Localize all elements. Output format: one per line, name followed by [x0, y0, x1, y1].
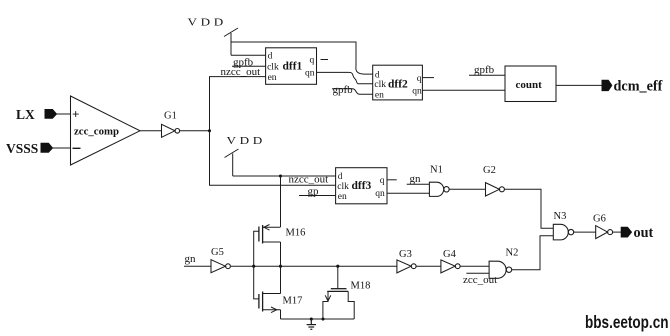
- svg-text:clk: clk: [267, 62, 279, 72]
- nand N2: [489, 248, 518, 279]
- power VDD (top): [188, 16, 239, 55]
- wire VDD branch to dff2 d: [356, 67, 373, 75]
- svg-text:en: en: [268, 73, 277, 83]
- svg-text:M16: M16: [286, 228, 306, 239]
- svg-text:+: +: [72, 106, 79, 121]
- svg-text:LX: LX: [16, 107, 35, 122]
- svg-text:VDD: VDD: [188, 16, 227, 28]
- flip-flop dff2: [373, 65, 423, 100]
- ground: [307, 319, 316, 329]
- svg-text:G1: G1: [164, 111, 177, 122]
- wire G5 to G3 (main rail): [231, 265, 397, 267]
- svg-text:M17: M17: [283, 296, 303, 307]
- wire dff2 q stub: [422, 77, 434, 79]
- nand N1: [429, 165, 449, 197]
- node junction ground: [310, 317, 313, 320]
- svg-text:q: q: [380, 176, 385, 186]
- wire count to dcm_eff: [556, 84, 602, 86]
- svg-text:d: d: [338, 172, 343, 182]
- power VDD (middle): [225, 134, 266, 176]
- node out output tag: [621, 227, 631, 237]
- wire G6 to out tag: [613, 231, 622, 233]
- node LX input tag: [45, 110, 57, 119]
- inverter G1: [162, 111, 180, 138]
- wire VDD to dff1 d, net gpfb: [231, 54, 266, 56]
- wire gpfb to dff2 en: [332, 89, 373, 94]
- node junction M18 gate: [336, 265, 339, 268]
- wire dff1 clk, net nzcc_out: [232, 65, 266, 67]
- wire N1 to G2: [449, 188, 485, 190]
- wire VSSS to comparator: [53, 147, 71, 149]
- svg-text:d: d: [268, 52, 273, 62]
- wire gpfb into count: [469, 74, 505, 76]
- svg-text:out: out: [634, 225, 654, 241]
- transistor M18: [323, 266, 370, 319]
- wire gn to N1: [407, 183, 430, 185]
- node dcm_eff output tag: [602, 80, 612, 90]
- svg-text:G6: G6: [593, 214, 606, 225]
- svg-text:q: q: [310, 56, 315, 66]
- svg-text:qn: qn: [412, 87, 422, 97]
- svg-text:G3: G3: [399, 249, 412, 260]
- svg-text:nzcc_out: nzcc_out: [289, 173, 329, 185]
- wire G2 to N3 top input: [504, 189, 553, 228]
- wire gn to G5: [184, 265, 211, 267]
- op-amp zcc_comp: [71, 96, 141, 165]
- svg-text:count: count: [516, 79, 543, 91]
- wire gp to dff3 en: [299, 195, 336, 197]
- node VSSS input tag: [41, 143, 53, 152]
- svg-text:zcc_comp: zcc_comp: [74, 126, 119, 138]
- inverter G5: [211, 247, 230, 273]
- block count: [505, 66, 556, 102]
- wire G3 to G4: [416, 265, 441, 267]
- svg-text:qn: qn: [375, 189, 385, 199]
- wire dff3 q stub: [387, 179, 397, 181]
- svg-text:VDD: VDD: [227, 134, 266, 146]
- svg-text:gpfb: gpfb: [333, 84, 354, 96]
- svg-text:qn: qn: [305, 69, 315, 79]
- transistor M17: [254, 266, 303, 319]
- node junction on d wire: [279, 174, 282, 177]
- svg-text:dff3: dff3: [352, 180, 372, 192]
- svg-text:bbs.eetop.cn: bbs.eetop.cn: [585, 312, 669, 332]
- inverter G2: [483, 165, 504, 196]
- flip-flop dff3: [336, 168, 387, 204]
- svg-text:VSSS: VSSS: [6, 141, 38, 156]
- svg-text:q: q: [417, 74, 422, 84]
- wire N2 to N3 bottom input: [512, 236, 554, 270]
- svg-text:N2: N2: [506, 248, 519, 259]
- wire N3 to G6: [574, 231, 596, 233]
- wire dff3 qn to N1: [387, 192, 429, 194]
- wire node up to dff1 en: [210, 77, 266, 131]
- svg-text:N1: N1: [430, 165, 443, 176]
- svg-text:nzcc_out: nzcc_out: [221, 66, 261, 78]
- svg-text:gpfb: gpfb: [474, 64, 495, 76]
- wire junction down to M16 source: [280, 176, 282, 227]
- svg-text:dff1: dff1: [283, 61, 303, 73]
- inverter G3: [397, 249, 416, 273]
- svg-text:en: en: [338, 192, 347, 202]
- wire dff1 qn to dff2 clk: [317, 72, 373, 83]
- node junction M18 left leg: [321, 317, 324, 320]
- wire G1 to node: [180, 130, 210, 132]
- inverter G4: [441, 249, 460, 273]
- wire ground rail: [281, 318, 355, 320]
- wire zcc_out to N2 bottom input: [466, 272, 489, 274]
- svg-text:M18: M18: [351, 281, 371, 292]
- nand N3: [553, 211, 573, 240]
- wire comparator to G1: [140, 130, 162, 132]
- svg-text:G5: G5: [211, 247, 224, 258]
- wire G4 to N2 top input: [460, 265, 489, 267]
- svg-text:gn: gn: [185, 253, 197, 265]
- svg-text:zcc_out: zcc_out: [463, 274, 497, 286]
- svg-text:gn: gn: [410, 173, 422, 185]
- svg-text:G4: G4: [443, 249, 457, 260]
- wire VDD rail to dff2 branch: [231, 42, 356, 67]
- node junction drains: [279, 265, 282, 268]
- svg-text:dff2: dff2: [388, 79, 408, 91]
- wire node down to dff3 clk: [210, 131, 336, 186]
- wire LX to comparator: [57, 113, 71, 115]
- flip-flop dff1: [266, 48, 317, 85]
- svg-text:N3: N3: [554, 211, 567, 222]
- wire VDD to dff3 d: [233, 175, 336, 177]
- svg-text:clk: clk: [374, 80, 386, 90]
- inverter G6: [593, 214, 613, 239]
- wire dff2 qn to count: [422, 89, 505, 91]
- svg-text:dcm_eff: dcm_eff: [614, 78, 663, 94]
- svg-text:G2: G2: [483, 165, 496, 176]
- wire dff1 q stub: [321, 59, 329, 61]
- svg-text:en: en: [375, 91, 384, 101]
- svg-text:d: d: [375, 70, 380, 80]
- node A junction: [208, 129, 211, 132]
- transistor M16: [254, 225, 306, 267]
- svg-text:clk: clk: [337, 182, 349, 192]
- node junction gates: [252, 265, 255, 268]
